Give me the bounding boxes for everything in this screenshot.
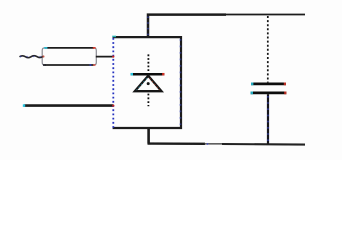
capacitor C1: red tip on bottom plate [284,92,286,95]
fuse F1: blue dot bottom edge right [89,64,91,66]
zener diode D1: centre dot of dotted axis [147,82,150,85]
capacitor C1: bottom lead [267,94,269,144]
TVS module box: cyan artifact at top-left corner [112,35,116,37]
wire: cyan tip artifact on lower-left wire [23,104,25,107]
wire: top rail thick left portion with corner down to TVS box [148,15,226,37]
TVS module box: dotted blue left edge [112,38,114,128]
fuse F1: dark corner marks bottom-left [43,64,46,66]
capacitor C1: cyan tip on top plate [251,83,253,86]
node: red entry mark upper wire at box [112,56,114,58]
fuse F1 body: faint right cap [94,48,96,65]
fuse F1 body: bottom edge [45,64,94,66]
node: artifact cluster at fuse left edge [42,55,44,57]
node: red entry mark lower wire at box [112,105,114,107]
wire: connector from box bottom to bottom rail [147,128,150,144]
capacitor C1: red tip on top plate [284,83,286,86]
fuse F1 body: faint left cap [42,48,44,65]
zener diode D1: red fringe on right slant [150,78,160,90]
fuse F1: cyan tip top-left corner [44,47,47,49]
zener diode D1: cyan fringe on left slant [137,78,147,90]
wire: top rail thinner right portion [225,14,305,16]
fuse F1: red tip bottom-right [93,64,95,66]
wire: wavy stub left of fuse F1 [20,56,43,58]
wire: bottom rail left segment [148,142,206,145]
fuse F1 body: top edge [45,47,95,49]
zener diode D1: dotted lead below triangle [147,94,149,107]
zener diode D1: cyan tip left of bar [131,73,133,76]
capacitor C1: bottom plate [251,92,287,95]
capacitor C1: dotted top lead [267,16,269,82]
node: blue speck on bottom rail [207,143,209,145]
fuse F1: red tip top-right corner [93,47,96,49]
wire: lower-left input wire [24,104,114,107]
wire: rainbow artifact overlay on box right edge [179,39,181,125]
TVS module box: top, right and bottom edges [113,37,182,128]
wire: stub from fuse F1 to TVS box left edge [96,56,114,58]
wire: bottom rail thin middle segment [204,143,223,145]
capacitor C1: top plate [251,83,286,86]
zener diode D1: dotted lead above cathode bar [147,54,149,71]
zener diode D1: cathode bar [131,73,165,76]
zener diode D1: red tip right of bar [162,73,164,76]
wire: bottom rail right segment [222,143,305,146]
wire: rainbow artifact overlay on top connector [147,17,149,37]
zener diode D1: triangle outline [135,76,162,91]
capacitor C1: cyan tip on bottom plate [251,92,253,95]
wire: rainbow artifact overlay on capacitor bottom lead [267,96,269,142]
wire: blue dot artifacts on fuse left stub [20,56,43,58]
